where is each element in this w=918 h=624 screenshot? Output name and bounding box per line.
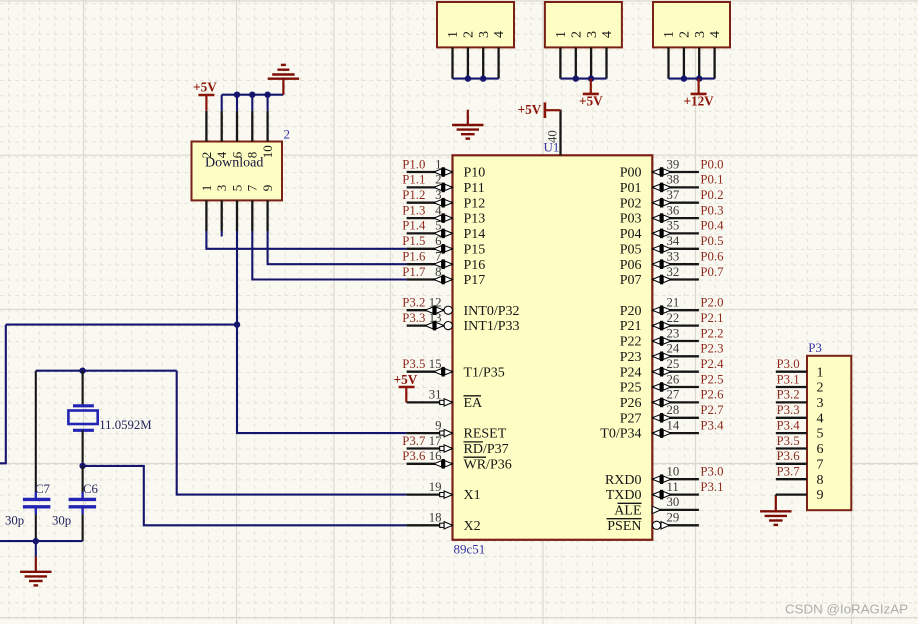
svg-text:P3: P3 bbox=[808, 340, 822, 355]
svg-text:P10: P10 bbox=[464, 166, 486, 181]
svg-text:5: 5 bbox=[435, 219, 441, 233]
svg-text:EA: EA bbox=[464, 396, 484, 411]
svg-text:5: 5 bbox=[817, 427, 824, 442]
svg-text:12: 12 bbox=[429, 296, 442, 310]
capacitor C6 bbox=[82, 466, 84, 492]
svg-text:30: 30 bbox=[667, 495, 680, 509]
pin 9 RESET (left) bbox=[407, 432, 453, 434]
junction node Download pin5/reset bbox=[234, 321, 240, 327]
P3 pin 7 bbox=[776, 463, 807, 465]
pin 24 P23 (right) bbox=[652, 355, 699, 357]
svg-text:P00: P00 bbox=[620, 166, 642, 181]
svg-text:P04: P04 bbox=[620, 227, 642, 242]
svg-text:3: 3 bbox=[693, 31, 708, 38]
svg-text:P3.5: P3.5 bbox=[402, 357, 425, 371]
svg-text:P03: P03 bbox=[620, 212, 642, 227]
pin 22 P21 (right) bbox=[652, 324, 699, 326]
svg-text:P16: P16 bbox=[464, 258, 486, 273]
connector J2 box bbox=[545, 2, 622, 47]
pin 27 P26 (right) bbox=[652, 401, 699, 403]
svg-text:P2.7: P2.7 bbox=[700, 403, 724, 417]
connector J3 box bbox=[653, 2, 730, 47]
pin 32 P07 (right) bbox=[652, 278, 699, 280]
svg-text:1: 1 bbox=[199, 185, 214, 192]
wire left edge vertical bbox=[0, 325, 6, 464]
svg-text:P02: P02 bbox=[620, 196, 642, 211]
pin 17 RD/P37 (left) bbox=[407, 447, 453, 449]
svg-text:P3.3: P3.3 bbox=[777, 403, 800, 417]
svg-text:P05: P05 bbox=[620, 242, 642, 257]
wire long horizontal to left edge bbox=[6, 324, 237, 326]
pin 25 P24 (right) bbox=[652, 371, 699, 373]
svg-text:13: 13 bbox=[429, 311, 442, 325]
svg-text:RESET: RESET bbox=[464, 427, 507, 442]
pin 40 VCC wire bbox=[559, 110, 561, 156]
svg-text:32: 32 bbox=[667, 265, 680, 279]
svg-text:+5V: +5V bbox=[518, 102, 542, 117]
svg-text:P2.4: P2.4 bbox=[700, 357, 724, 371]
svg-text:P14: P14 bbox=[464, 227, 486, 242]
svg-text:P1.5: P1.5 bbox=[402, 234, 425, 248]
svg-text:24: 24 bbox=[667, 342, 680, 356]
node crystal top bbox=[79, 368, 85, 374]
svg-text:28: 28 bbox=[667, 403, 680, 417]
svg-text:6: 6 bbox=[435, 234, 442, 248]
svg-text:P0.1: P0.1 bbox=[700, 173, 723, 187]
svg-text:P3.7: P3.7 bbox=[777, 465, 801, 479]
svg-text:Download: Download bbox=[205, 156, 263, 171]
svg-text:P07: P07 bbox=[620, 273, 642, 288]
svg-text:P3.6: P3.6 bbox=[402, 449, 426, 463]
svg-text:8: 8 bbox=[435, 265, 441, 279]
svg-text:6: 6 bbox=[817, 442, 824, 457]
svg-text:WR/P36: WR/P36 bbox=[464, 457, 512, 472]
svg-text:40: 40 bbox=[546, 130, 560, 143]
pin 36 P03 (right) bbox=[652, 217, 699, 219]
svg-text:P24: P24 bbox=[620, 365, 642, 380]
svg-text:1: 1 bbox=[817, 365, 824, 380]
svg-text:P3.1: P3.1 bbox=[777, 372, 800, 386]
svg-text:ALE: ALE bbox=[614, 504, 641, 519]
svg-text:19: 19 bbox=[429, 480, 442, 494]
pin 23 P22 (right) bbox=[652, 340, 699, 342]
svg-text:P13: P13 bbox=[464, 212, 486, 227]
P3 pin 2 bbox=[776, 386, 807, 388]
svg-text:9: 9 bbox=[260, 185, 275, 192]
svg-text:2: 2 bbox=[462, 31, 477, 38]
svg-text:P11: P11 bbox=[464, 181, 485, 196]
wire bus under J1 bbox=[453, 78, 499, 80]
pin 11 TXD0 (right) bbox=[652, 493, 699, 495]
wire bottom rail bbox=[0, 540, 83, 542]
svg-text:P2.1: P2.1 bbox=[700, 311, 723, 325]
svg-text:P17: P17 bbox=[464, 273, 486, 288]
pin 39 P00 (right) bbox=[652, 171, 699, 173]
svg-text:P3.7: P3.7 bbox=[402, 434, 426, 448]
junction node bottom rail bbox=[33, 538, 39, 544]
svg-text:15: 15 bbox=[429, 357, 442, 371]
pin 26 P25 (right) bbox=[652, 386, 699, 388]
svg-text:4: 4 bbox=[708, 31, 723, 38]
svg-text:1: 1 bbox=[554, 31, 569, 38]
svg-text:P0.4: P0.4 bbox=[700, 219, 724, 233]
svg-text:1: 1 bbox=[435, 157, 441, 171]
P3 pin 9 bbox=[776, 493, 807, 495]
power +5V below connector J2 bbox=[590, 79, 592, 94]
svg-text:14: 14 bbox=[667, 418, 680, 432]
pin 28 P27 (right) bbox=[652, 417, 699, 419]
power +12V below connector J3 bbox=[697, 79, 699, 94]
pin 6 P15 (left) bbox=[407, 248, 453, 250]
wire down to RESET bbox=[237, 325, 407, 434]
svg-text:4: 4 bbox=[600, 31, 615, 38]
svg-text:P0.0: P0.0 bbox=[700, 157, 723, 171]
svg-text:P3.4: P3.4 bbox=[700, 418, 724, 432]
svg-text:P21: P21 bbox=[620, 319, 642, 334]
P3 pin 6 bbox=[776, 447, 807, 449]
svg-text:INT0/P32: INT0/P32 bbox=[464, 304, 520, 319]
svg-text:P20: P20 bbox=[620, 304, 642, 319]
svg-text:+5V: +5V bbox=[579, 93, 603, 108]
svg-text:P01: P01 bbox=[620, 181, 642, 196]
svg-text:P22: P22 bbox=[620, 335, 642, 350]
svg-text:C7: C7 bbox=[35, 482, 51, 496]
pin 35 P04 (right) bbox=[652, 232, 699, 234]
svg-text:34: 34 bbox=[667, 234, 680, 248]
svg-text:P06: P06 bbox=[620, 258, 642, 273]
svg-text:P1.3: P1.3 bbox=[402, 203, 425, 217]
svg-text:P2.2: P2.2 bbox=[700, 326, 723, 340]
pin 29 PSEN (right) bbox=[652, 524, 699, 526]
svg-text:21: 21 bbox=[667, 296, 680, 310]
pin 2 P11 (left) bbox=[407, 186, 453, 188]
svg-text:3: 3 bbox=[214, 185, 229, 192]
connector P3 box bbox=[807, 356, 851, 510]
wire Download pin1 to P15 bbox=[206, 231, 406, 249]
svg-text:2: 2 bbox=[435, 173, 441, 187]
svg-text:16: 16 bbox=[429, 449, 442, 463]
svg-text:3: 3 bbox=[477, 31, 492, 38]
pin 16 WR/P36 (left) bbox=[407, 463, 453, 465]
svg-text:11.0592M: 11.0592M bbox=[99, 418, 152, 432]
svg-text:3: 3 bbox=[435, 188, 441, 202]
P3 pin 5 bbox=[776, 432, 807, 434]
svg-text:PSEN: PSEN bbox=[607, 519, 641, 534]
svg-text:11: 11 bbox=[667, 480, 679, 494]
svg-text:P27: P27 bbox=[620, 411, 642, 426]
pin 7 P16 (left) bbox=[407, 263, 453, 265]
svg-text:1: 1 bbox=[446, 31, 461, 38]
svg-text:18: 18 bbox=[429, 511, 442, 525]
svg-text:P25: P25 bbox=[620, 381, 642, 396]
svg-text:P1.4: P1.4 bbox=[402, 219, 426, 233]
svg-text:30p: 30p bbox=[5, 514, 24, 528]
svg-text:P3.2: P3.2 bbox=[777, 388, 800, 402]
power +5V above Download pin 2 bbox=[205, 95, 207, 111]
svg-text:P1.6: P1.6 bbox=[402, 250, 426, 264]
pin 21 P20 (right) bbox=[652, 309, 699, 311]
svg-text:P0.2: P0.2 bbox=[700, 188, 723, 202]
svg-text:P0.3: P0.3 bbox=[700, 203, 723, 217]
pin 30 ALE (right) bbox=[652, 509, 699, 511]
pin 15 T1/P35 (left) bbox=[407, 371, 453, 373]
connector J1 pin wires bbox=[451, 47, 453, 78]
svg-text:TXD0: TXD0 bbox=[606, 488, 642, 503]
power +5V at pin 40 bbox=[544, 102, 547, 118]
svg-text:7: 7 bbox=[245, 184, 260, 191]
svg-text:+12V: +12V bbox=[683, 93, 714, 108]
pin 14 T0/P34 (right) bbox=[652, 432, 699, 434]
wire stub Download pin3 bbox=[221, 231, 223, 237]
svg-text:3: 3 bbox=[817, 396, 824, 411]
svg-text:29: 29 bbox=[667, 511, 680, 525]
pin 18 X2 (left) bbox=[407, 524, 453, 526]
svg-text:P3.5: P3.5 bbox=[777, 434, 800, 448]
svg-text:33: 33 bbox=[667, 250, 680, 264]
pin 31 EA (left) bbox=[407, 401, 453, 403]
pin 1 P10 (left) bbox=[407, 171, 453, 173]
capacitor C7 bbox=[35, 371, 37, 492]
svg-text:P2.6: P2.6 bbox=[700, 388, 724, 402]
pin 5 P14 (left) bbox=[407, 232, 453, 234]
wire Download pin5 down bbox=[236, 231, 238, 325]
svg-text:22: 22 bbox=[667, 311, 680, 325]
svg-text:P1.2: P1.2 bbox=[402, 188, 425, 202]
svg-text:P3.0: P3.0 bbox=[700, 465, 723, 479]
P3 pin 1 bbox=[776, 371, 807, 373]
svg-text:2: 2 bbox=[678, 31, 693, 38]
svg-text:RXD0: RXD0 bbox=[605, 473, 642, 488]
P3 pin 3 bbox=[776, 401, 807, 403]
svg-text:P2.0: P2.0 bbox=[700, 296, 723, 310]
svg-text:37: 37 bbox=[667, 188, 680, 202]
svg-text:P0.6: P0.6 bbox=[700, 250, 724, 264]
pin 12 INT0/P32 (left) bbox=[407, 309, 453, 311]
ground above Download bus bbox=[282, 79, 284, 95]
wire bus under J2 bbox=[560, 78, 606, 80]
wire Download pin7 to P17 bbox=[252, 231, 406, 280]
svg-text:4: 4 bbox=[817, 411, 824, 426]
wire stub to ground bbox=[35, 541, 37, 556]
svg-text:35: 35 bbox=[667, 219, 680, 233]
svg-text:23: 23 bbox=[667, 326, 680, 340]
svg-text:+5V: +5V bbox=[394, 372, 418, 387]
svg-text:38: 38 bbox=[667, 173, 680, 187]
junction dots under J1 bbox=[465, 75, 471, 81]
svg-text:T1/P35: T1/P35 bbox=[464, 365, 505, 380]
pin 33 P06 (right) bbox=[652, 263, 699, 265]
pin 4 P13 (left) bbox=[407, 217, 453, 219]
svg-text:26: 26 bbox=[667, 372, 680, 386]
op IC U1 89c51 body bbox=[453, 155, 653, 540]
connector J1 box bbox=[437, 2, 514, 47]
wire Download pin9 to P16 bbox=[268, 231, 407, 264]
svg-text:7: 7 bbox=[817, 457, 824, 472]
svg-text:39: 39 bbox=[667, 157, 680, 171]
pin 19 X1 (left) bbox=[407, 493, 453, 495]
ground at P3 pin 9 bbox=[775, 496, 777, 511]
wire bus above Download pins 4..10 bbox=[221, 95, 223, 111]
wire to X2 bbox=[83, 466, 407, 525]
wire crystal top rail bbox=[36, 370, 177, 372]
svg-text:36: 36 bbox=[667, 203, 680, 217]
ground below connector J1 bbox=[467, 110, 469, 125]
wire bus under J3 bbox=[669, 78, 715, 80]
svg-text:P1.0: P1.0 bbox=[402, 157, 425, 171]
pin 8 P17 (left) bbox=[407, 278, 453, 280]
svg-text:8: 8 bbox=[817, 473, 824, 488]
svg-text:27: 27 bbox=[667, 388, 680, 402]
svg-text:RD/P37: RD/P37 bbox=[464, 442, 509, 457]
node crystal bottom bbox=[79, 463, 85, 469]
svg-text:10: 10 bbox=[667, 465, 680, 479]
svg-text:7: 7 bbox=[435, 250, 442, 264]
junction dots under J3 bbox=[681, 75, 687, 81]
svg-text:89c51: 89c51 bbox=[454, 542, 486, 557]
svg-text:T0/P34: T0/P34 bbox=[600, 427, 641, 442]
svg-text:2: 2 bbox=[569, 31, 584, 38]
junction dots on Download bus bbox=[234, 92, 240, 98]
svg-text:2: 2 bbox=[284, 126, 291, 141]
pin 38 P01 (right) bbox=[652, 186, 699, 188]
svg-text:17: 17 bbox=[429, 434, 442, 448]
svg-text:X1: X1 bbox=[464, 488, 481, 503]
svg-text:30p: 30p bbox=[52, 514, 71, 528]
svg-text:P12: P12 bbox=[464, 196, 486, 211]
svg-text:P2.5: P2.5 bbox=[700, 372, 723, 386]
svg-text:9: 9 bbox=[817, 488, 824, 503]
Download top pin wires bbox=[205, 111, 207, 142]
pin 34 P05 (right) bbox=[652, 248, 699, 250]
svg-text:P15: P15 bbox=[464, 242, 486, 257]
svg-text:5: 5 bbox=[229, 185, 244, 192]
svg-text:C6: C6 bbox=[83, 482, 99, 496]
svg-text:P3.4: P3.4 bbox=[777, 418, 801, 432]
connector J2 pin wires bbox=[559, 47, 561, 78]
crystal Y1 11.0592M bbox=[82, 371, 84, 406]
svg-text:P2.3: P2.3 bbox=[700, 342, 723, 356]
wire P3 pin9 to ground bbox=[775, 495, 777, 496]
svg-text:X2: X2 bbox=[464, 519, 481, 534]
svg-text:P26: P26 bbox=[620, 396, 642, 411]
connector J3 pin wires bbox=[667, 47, 669, 78]
svg-text:P0.7: P0.7 bbox=[700, 265, 724, 279]
svg-text:+5V: +5V bbox=[193, 80, 217, 95]
pin 13 INT1/P33 (left) bbox=[407, 324, 453, 326]
svg-text:CSDN @IoRAGIzAP: CSDN @IoRAGIzAP bbox=[785, 602, 908, 617]
svg-text:P1.1: P1.1 bbox=[402, 173, 425, 187]
pin 37 P02 (right) bbox=[652, 202, 699, 204]
svg-text:P3.2: P3.2 bbox=[402, 296, 425, 310]
svg-text:P23: P23 bbox=[620, 350, 642, 365]
svg-text:P1.7: P1.7 bbox=[402, 265, 426, 279]
svg-text:3: 3 bbox=[585, 31, 600, 38]
P3 pin 8 bbox=[776, 478, 807, 480]
svg-text:P3.1: P3.1 bbox=[700, 480, 723, 494]
svg-text:2: 2 bbox=[817, 381, 824, 396]
svg-text:INT1/P33: INT1/P33 bbox=[464, 319, 520, 334]
svg-text:P3.6: P3.6 bbox=[777, 449, 801, 463]
P3 pin 4 bbox=[776, 417, 807, 419]
wire to X1 bbox=[177, 371, 407, 495]
connector Download (ISP header) box bbox=[192, 142, 283, 201]
svg-text:P3.0: P3.0 bbox=[777, 357, 800, 371]
svg-text:4: 4 bbox=[435, 203, 442, 217]
svg-text:P3.3: P3.3 bbox=[402, 311, 425, 325]
Download bottom pin wires bbox=[205, 200, 207, 231]
svg-text:31: 31 bbox=[429, 388, 442, 402]
svg-text:1: 1 bbox=[662, 31, 677, 38]
pin 3 P12 (left) bbox=[407, 202, 453, 204]
pin 10 RXD0 (right) bbox=[652, 478, 699, 480]
junction dots under J2 bbox=[573, 75, 579, 81]
svg-text:25: 25 bbox=[667, 357, 680, 371]
svg-text:4: 4 bbox=[492, 31, 507, 38]
svg-text:9: 9 bbox=[435, 418, 441, 432]
ground bottom-left bbox=[35, 557, 37, 572]
svg-text:P0.5: P0.5 bbox=[700, 234, 723, 248]
